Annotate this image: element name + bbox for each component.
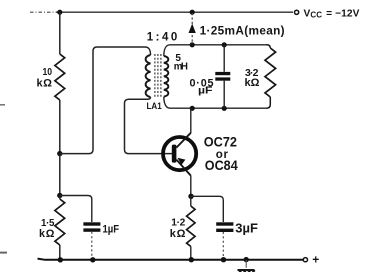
wire left column upper — [59, 12, 61, 54]
node rail 1uF — [90, 257, 95, 262]
wire left column mid — [59, 100, 61, 154]
node rail 1.2k — [189, 257, 194, 262]
capacitor C 0.05uF bottom lead — [223, 81, 225, 109]
current arrow head — [189, 24, 196, 34]
node secondary top cap junction — [222, 42, 227, 47]
capacitor C 1uF bottom plate — [83, 228, 100, 231]
wire 1.2k bottom stub — [190, 247, 192, 260]
svg-text:kΩ: kΩ — [37, 78, 53, 90]
wire 3uF branch — [191, 196, 223, 222]
capacitor C 1uF top plate — [83, 222, 100, 225]
svg-text:+: + — [312, 253, 319, 267]
svg-text:OC72: OC72 — [204, 134, 237, 149]
svg-text:VCC = −12V: VCC = −12V — [304, 8, 360, 19]
svg-text:mH: mH — [174, 61, 188, 72]
resistor R 10k — [55, 54, 65, 100]
capacitor C 0.05uF top plate — [215, 72, 230, 75]
resistor R 1.5k — [55, 199, 65, 245]
wire secondary top — [164, 45, 267, 56]
transistor emitter arrow (PNP) — [177, 158, 185, 165]
svg-text:kΩ: kΩ — [39, 228, 55, 240]
svg-text:3µF: 3µF — [235, 221, 258, 235]
svg-text:10: 10 — [43, 67, 53, 78]
resistor R 3.2k top corner — [267, 45, 271, 48]
wire 1.5k bottom stub — [59, 245, 61, 260]
node rail 1.5k — [58, 257, 63, 262]
node emitter junction — [188, 194, 193, 199]
svg-text:LA1: LA1 — [147, 101, 162, 111]
wire 3uF bottom dotted lead — [222, 232, 224, 258]
wire top rail main — [56, 11, 293, 13]
wire 1uF branch — [60, 196, 92, 223]
node rail ground — [244, 257, 249, 262]
svg-text:kΩ: kΩ — [245, 77, 260, 89]
svg-text:1µF: 1µF — [103, 223, 120, 235]
node secondary bottom cap junction — [222, 106, 227, 111]
wire bottom rail — [38, 259, 304, 260]
wire divider to primary-top riser — [60, 47, 151, 154]
wire emitter drop — [190, 176, 192, 197]
wire current-arrow branch — [191, 13, 193, 44]
svg-text:1·25mA(mean): 1·25mA(mean) — [200, 23, 285, 37]
margin dash left lower — [0, 252, 7, 254]
wire ground stub — [245, 260, 247, 268]
transformer core dashed lines — [155, 54, 161, 97]
node top arrow-branch junction — [190, 10, 195, 15]
terminal Vcc — [295, 10, 299, 14]
resistor R 3.2k bottom corner — [267, 97, 271, 108]
wire left column lower — [59, 154, 61, 196]
wire 1.5k top stub — [59, 196, 61, 200]
node secondary bottom left — [190, 106, 195, 111]
node emitter-divider junction left — [57, 193, 62, 198]
svg-text:1·2: 1·2 — [171, 218, 185, 229]
wire 1.2k top stub — [190, 196, 192, 206]
terminal plus — [303, 258, 307, 262]
ground symbol — [238, 270, 255, 272]
wire top supply rail — [30, 11, 56, 13]
svg-text:1:40: 1:40 — [147, 32, 178, 44]
wire primary bottom to base — [125, 97, 173, 154]
svg-text:kΩ: kΩ — [170, 228, 186, 240]
transistor emitter lead — [176, 160, 190, 176]
capacitor C 3uF bottom plate — [216, 229, 233, 232]
node rail 3uF — [221, 257, 226, 262]
node top-left junction — [57, 10, 62, 15]
svg-text:OC84: OC84 — [205, 158, 238, 173]
transistor collector lead — [176, 133, 190, 148]
svg-text:µF: µF — [198, 86, 213, 97]
node secondary top left — [190, 42, 195, 47]
transistor base bar — [172, 145, 177, 163]
wire collector riser — [190, 108, 192, 133]
margin dash left upper — [0, 104, 5, 106]
transistor Q1 circle — [163, 137, 196, 170]
resistor R 1.2k — [187, 206, 195, 247]
capacitor C 0.05uF top lead — [223, 45, 225, 72]
transformer primary winding LA1 — [146, 55, 151, 97]
capacitor C 3uF top plate — [216, 222, 233, 225]
capacitor C 0.05uF bottom plate — [215, 77, 230, 80]
wire secondary bottom — [164, 97, 267, 108]
wire 1uF bottom dotted lead — [91, 232, 93, 259]
resistor R 3.2k — [265, 48, 276, 97]
node base divider junction — [57, 151, 62, 156]
transformer secondary winding — [164, 56, 169, 97]
